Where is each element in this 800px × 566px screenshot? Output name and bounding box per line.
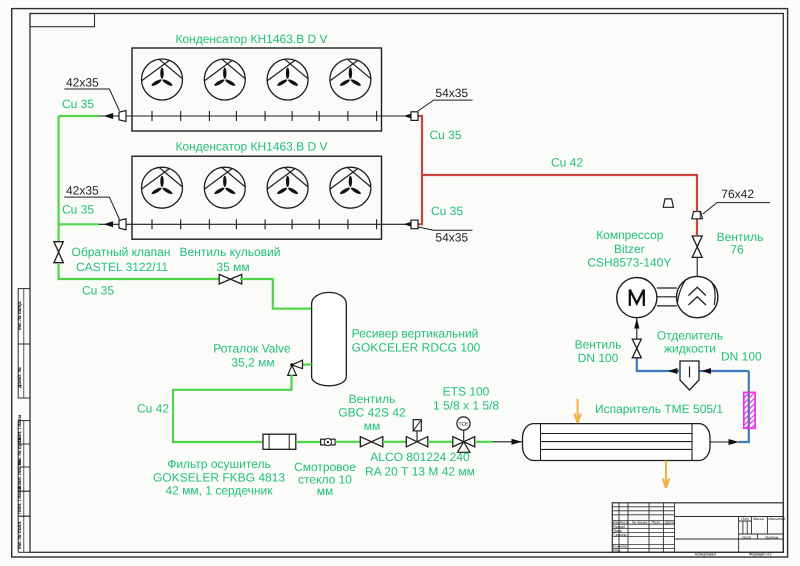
svg-text:Обратный клапан: Обратный клапан [72,245,171,259]
label Cu35 bottom left [82,284,114,298]
reducer 54x35 AC2 [411,220,418,229]
label 54x35 AC1 with leader [418,86,473,111]
valve GBC [360,437,383,447]
svg-text:42x35: 42x35 [66,184,99,198]
fan F2 [204,59,245,100]
svg-text:Взам. інв. №: Взам. інв. № [17,459,22,489]
compressor screw circle [677,276,718,317]
svg-text:Лист: Лист [741,535,751,539]
wire solenoid to TEV green [428,441,453,443]
label rotalock [213,342,291,370]
wire suction blue separator to valve [637,358,680,371]
fan F8 [330,167,371,208]
svg-text:Вентиль кульовий: Вентиль кульовий [180,245,281,259]
wire discharge red main [418,116,698,212]
wire GBC to solenoid green [383,441,407,443]
air flow arrow top [574,399,580,423]
left margin stamp cell 5 [17,459,30,491]
arrow into liquid line AC1 [99,113,119,119]
label Cu42 top [551,156,583,170]
svg-text:Ресивер вертикальний: Ресивер вертикальний [352,327,479,341]
svg-text:Лит.: Лит. [740,517,749,521]
fan F4 [330,59,371,100]
left margin stamp cell 7 [17,516,30,552]
wire suction blue left to separator [699,370,749,372]
svg-text:42x35: 42x35 [66,76,99,90]
svg-text:1 5/8 x 1 5/8: 1 5/8 x 1 5/8 [433,399,499,413]
svg-text:42 мм, 1 сердечник: 42 мм, 1 сердечник [165,484,273,498]
svg-text:Cu 35: Cu 35 [82,284,114,298]
svg-text:Cu 35: Cu 35 [430,128,462,142]
title block left table columns [619,503,675,553]
label filter drier [153,457,285,498]
arrow into AC1 right [404,113,414,119]
svg-text:Утв.: Утв. [613,549,621,553]
label Cu42 left [137,402,169,416]
sight glass SG1 [321,439,335,446]
fan F3 [267,59,308,100]
service cap symbol [663,199,673,207]
arrow out of evaporator [710,439,739,445]
svg-text:Вентиль: Вентиль [575,338,622,352]
air flow arrow bottom [663,461,669,489]
label Cu35 left AC1 [62,97,94,111]
svg-text:DN 100: DN 100 [721,350,762,364]
svg-text:Т.контр.: Т.контр. [613,533,628,537]
fan F6 [204,167,245,208]
svg-text:Cu 35: Cu 35 [62,203,94,217]
label evaporator [595,402,723,416]
svg-text:76x42: 76x42 [721,187,754,201]
label 42x35 AC1 with leader [64,76,119,112]
wire liquid out AC2 green [59,223,99,225]
svg-text:Испаритель ТМЕ 505/1: Испаритель ТМЕ 505/1 [595,402,723,416]
label compressor [587,228,671,270]
svg-text:Масса: Масса [753,517,764,521]
label Cu35 right AC2 [431,204,463,218]
svg-text:ALCO 801224 240: ALCO 801224 240 [370,450,470,464]
rotalock angle valve [288,360,303,375]
left margin stamp cell 4 [17,437,30,467]
condenser AC1 label [175,32,327,46]
svg-text:Інв. № патр.: Інв. № патр. [17,301,22,330]
reducer 76x42 [692,212,703,219]
svg-text:35 мм: 35 мм [216,260,249,274]
left margin stamp cell 1 [17,289,30,344]
label Cu35 left AC2 [62,203,94,217]
svg-text:Довід. №: Довід. № [17,366,22,389]
left margin stamp cell 3 [17,414,30,444]
label solenoid ALCO [365,450,475,479]
title block outline [612,503,783,553]
svg-text:Cu 35: Cu 35 [62,97,94,111]
svg-text:ТСЕ: ТСЕ [459,422,470,428]
fan F5 [142,167,183,208]
label 76x42 with leader [703,187,770,214]
wire liquid out AC1 green [59,115,99,117]
arrow into AC2 right [404,221,414,227]
label check valve [72,245,171,274]
wire receiver outlet stub green [303,363,312,365]
reducer 54x35 AC1 [411,112,418,121]
wire discharge red lower branch [418,175,423,224]
label Cu35 right AC1 [430,128,462,142]
wire valve to compressor with arrow [634,318,639,339]
svg-text:CSH8573-140Y: CSH8573-140Y [587,256,671,270]
svg-text:Підп. і дата: Підп. і дата [17,486,22,514]
arrow into evaporator [493,439,523,445]
fan F7 [267,167,308,208]
wire suction blue right [739,371,749,442]
svg-text:Копировал: Копировал [695,552,716,557]
svg-text:Компрессор: Компрессор [596,228,664,242]
condenser AC1 coil line with fins [126,111,411,121]
wire main liquid riser green [57,116,59,242]
reducer 42x35 AC2 [119,219,126,230]
label 54x35 AC2 with leader [418,227,473,245]
svg-text:Cu 42: Cu 42 [137,402,169,416]
title block tiny texts [613,517,786,553]
svg-text:Bitzer: Bitzer [614,242,645,256]
crankcase heater hatched [744,392,755,428]
fan F1 [142,59,183,100]
label 42x35 AC2 with leader [64,184,119,220]
wire discharge red lower [696,219,698,236]
filter drier FD1 [263,434,296,449]
wire TEV to evaporator green [475,441,493,443]
svg-text:Вентиль: Вентиль [349,392,396,406]
svg-text:Формат А1: Формат А1 [749,552,772,557]
title block right section lines [675,517,784,553]
top-left stamp box [30,14,95,27]
flow arrow right of separator [702,368,712,374]
svg-text:мм: мм [364,419,381,433]
label valve GBC [338,392,406,433]
sheet margin texts [695,552,772,557]
svg-text:Конденсатор КН1463.B D V: Конденсатор КН1463.B D V [175,32,327,46]
wire sightglass to GBC valve green [335,441,360,443]
svg-text:Подп.: Подп. [652,521,662,525]
receiver RV1 vessel [312,292,347,385]
svg-text:Інв. № подл.: Інв. № подл. [17,520,22,549]
condenser AC2 label [175,140,327,154]
reducer 42x35 AC1 [119,111,126,122]
svg-text:Дата: Дата [664,521,674,525]
svg-text:54x35: 54x35 [435,231,468,245]
svg-text:CASTEL 3122/11: CASTEL 3122/11 [76,260,168,274]
svg-text:Листов: Листов [764,535,778,539]
left margin stamp cell 2 [17,344,30,398]
title block left table rows [612,507,674,549]
svg-text:Конденсатор КН1463.B D V: Конденсатор КН1463.B D V [175,140,327,154]
svg-text:76: 76 [730,243,744,257]
solenoid valve ALCO [406,420,428,447]
svg-text:Роталок Valve: Роталок Valve [213,342,291,356]
condenser AC2 coil line with fins [126,219,411,229]
svg-text:жидкости: жидкости [664,341,716,355]
label receiver [352,327,481,355]
valve 76 discharge [692,236,702,257]
wire ball valve to receiver green [240,279,312,309]
compressor motor circle M [617,278,657,318]
svg-text:GOKCELER RDCG 100: GOKCELER RDCG 100 [352,341,481,355]
wire screw circle to valve76 [696,257,698,276]
condenser AC2 box [132,156,382,239]
liquid separator SEP1 [680,361,699,390]
label DN100 right [721,350,762,364]
svg-text:мм: мм [317,484,334,498]
svg-text:DN 100: DN 100 [578,351,619,365]
label ball valve [180,245,281,274]
svg-text:Фильтр осушитель: Фильтр осушитель [167,457,271,471]
arrow into liquid line AC2 [99,221,119,227]
evaporator EV1 vessel [523,424,711,461]
left margin stamp cell 6 [17,486,30,516]
svg-text:Cu 42: Cu 42 [551,156,583,170]
svg-text:RA 20 Т 13 М 42 мм: RA 20 Т 13 М 42 мм [365,465,475,479]
label valve DN100 [575,338,622,366]
svg-text:GOKSELER FKBG 4813: GOKSELER FKBG 4813 [153,471,285,485]
label sight glass [294,460,356,498]
svg-text:Масштаб: Масштаб [769,517,787,521]
label ETS100 [433,385,499,413]
ball valve BV1 [219,274,242,284]
svg-text:35,2 мм: 35,2 мм [231,356,274,370]
condenser AC1 box [132,48,382,131]
svg-text:ETS 100: ETS 100 [443,385,490,399]
valve DN100 [632,339,641,358]
flow arrow left of separator [668,368,678,374]
wire rotalock down to liquid line green [173,375,292,442]
label valve 76 [717,230,764,257]
svg-text:54x35: 54x35 [435,86,468,100]
check valve CV1 [54,242,63,263]
expansion valve ETS100 [453,417,475,452]
svg-text:№ докум.: № докум. [632,521,648,525]
svg-text:GBC 42S 42: GBC 42S 42 [338,406,406,420]
wire below check valve green [59,264,219,279]
label separator [657,329,723,356]
svg-text:Cu 35: Cu 35 [431,204,463,218]
compressor coupling [657,288,677,306]
wire filter to sightglass green [296,441,321,443]
